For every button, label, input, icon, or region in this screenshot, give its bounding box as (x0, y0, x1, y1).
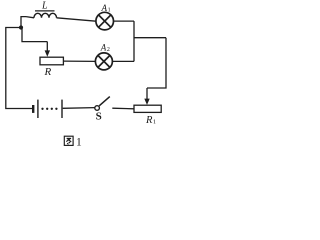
battery (33, 100, 62, 118)
wire: lamp A2 to right vertical (112, 60, 134, 62)
lamp A2 (95, 53, 112, 70)
wire: battery to switch (63, 107, 95, 110)
lamp A1 (96, 12, 114, 30)
svg-text:1: 1 (153, 119, 156, 126)
wire: lamp A1 to right vertical (114, 20, 135, 22)
rheostat R1 body (134, 105, 161, 112)
wire: right rail down to R1 slider feed (147, 38, 166, 88)
svg-text:L: L (41, 1, 48, 12)
wire: R to lamp A2 (63, 60, 95, 62)
wire: right vertical joining A1 and A2 (133, 21, 135, 61)
node A (junction dot) (19, 25, 23, 29)
inductor L (34, 11, 57, 18)
svg-text:R: R (145, 115, 153, 126)
svg-text:S: S (96, 111, 102, 123)
wire: left rail (6, 28, 32, 109)
caption: hanzi tu (figure) drawn as paths (64, 136, 73, 145)
svg-text:1: 1 (76, 137, 82, 149)
wire: junction up to top wire (21, 17, 26, 28)
svg-text:2: 2 (107, 47, 110, 53)
wire: jog from junction to R slider (22, 28, 47, 42)
rheostat R1 slider arrow (144, 88, 149, 105)
wire: to inductor (26, 17, 34, 18)
rheostat R slider arrow (45, 42, 50, 57)
svg-text:1: 1 (108, 8, 111, 14)
resistor R body (40, 57, 63, 65)
svg-text:R: R (44, 66, 52, 78)
wire: switch to rheostat R1 (112, 107, 134, 110)
wire: inductor to lamp A1 (57, 18, 97, 21)
wire: middle horizontal to right rail (134, 37, 166, 39)
svg-text:A: A (100, 43, 107, 53)
switch S (95, 97, 110, 111)
svg-text:A: A (101, 3, 108, 13)
